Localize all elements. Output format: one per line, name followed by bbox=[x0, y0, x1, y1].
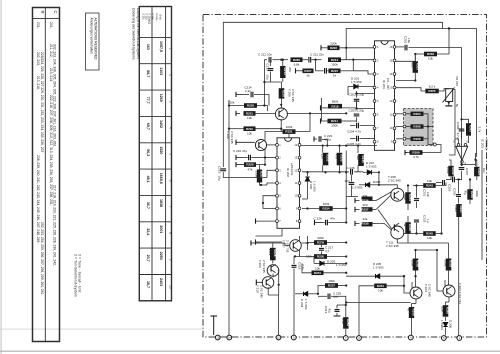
terminal 7 bbox=[343, 336, 348, 341]
svg-text:T 209: T 209 bbox=[258, 260, 262, 268]
ground stub T209 bbox=[251, 240, 260, 245]
terminal 10 bbox=[276, 335, 281, 340]
svg-text:1 S 953: 1 S 953 bbox=[352, 186, 363, 190]
svg-text:22k: 22k bbox=[321, 154, 325, 159]
svg-text:ALTERATIONS RESERVED: ALTERATIONS RESERVED bbox=[94, 18, 98, 61]
resistor R241s bbox=[474, 167, 486, 177]
svg-text:150k: 150k bbox=[331, 62, 338, 66]
resistor R206 bbox=[411, 124, 424, 128]
svg-text:22k: 22k bbox=[363, 217, 368, 221]
svg-text:R248: R248 bbox=[470, 191, 474, 199]
capacitor C219 47u bbox=[335, 310, 340, 312]
svg-text:R233: R233 bbox=[340, 154, 344, 162]
svg-text:C 211 22n: C 211 22n bbox=[310, 53, 324, 57]
IC201 pins left bbox=[373, 46, 376, 49]
svg-text:R234: R234 bbox=[322, 207, 330, 211]
svg-text:R250: R250 bbox=[416, 260, 420, 268]
svg-text:D 202: D 202 bbox=[309, 181, 313, 189]
svg-text:47k: 47k bbox=[248, 167, 253, 171]
resistor R257 100k bbox=[325, 279, 338, 288]
resistor R221 10k bbox=[244, 111, 256, 120]
svg-text:6,8k: 6,8k bbox=[294, 62, 300, 66]
junction on rail B bbox=[448, 27, 450, 29]
svg-text:3: 3 bbox=[169, 101, 173, 103]
svg-text:220k: 220k bbox=[228, 100, 235, 104]
svg-text:R208: R208 bbox=[413, 137, 421, 141]
svg-text:R216: R216 bbox=[282, 90, 286, 98]
svg-text:T 204: T 204 bbox=[424, 284, 428, 292]
svg-text:47n: 47n bbox=[330, 217, 335, 221]
resistor R245 10k bbox=[423, 231, 436, 240]
dash-dot frame border bbox=[203, 15, 487, 338]
svg-text:10k: 10k bbox=[427, 179, 432, 183]
resistor R242 2.7k bbox=[466, 123, 473, 136]
svg-text:R211: R211 bbox=[331, 119, 338, 123]
transistor T210 bbox=[262, 277, 274, 289]
svg-text:6: 6 bbox=[169, 180, 173, 182]
svg-text:2 SC 945: 2 SC 945 bbox=[428, 284, 432, 297]
svg-text:100k: 100k bbox=[444, 260, 448, 267]
wire down from R214 node bbox=[352, 60, 354, 71]
svg-text:R: R bbox=[40, 11, 45, 14]
capacitor C218 2.2u bbox=[292, 265, 297, 267]
svg-text:R242: R242 bbox=[469, 125, 473, 133]
resistor R235 bbox=[356, 154, 365, 166]
IC202 pins left bbox=[276, 144, 279, 147]
svg-text:R244: R244 bbox=[408, 194, 412, 202]
svg-text:10n: 10n bbox=[426, 192, 430, 197]
transistor T205 bbox=[275, 108, 287, 120]
svg-text:C213: C213 bbox=[266, 64, 270, 72]
svg-text:C227: C227 bbox=[477, 168, 481, 176]
diode D204 bbox=[304, 292, 308, 296]
ground stub pin7 bbox=[255, 219, 257, 224]
svg-text:TA7063: TA7063 bbox=[484, 139, 488, 150]
svg-text:1k: 1k bbox=[306, 74, 310, 78]
svg-text:2 SC 945: 2 SC 945 bbox=[291, 89, 295, 102]
svg-text:R261: R261 bbox=[377, 284, 385, 288]
transistor T203 bbox=[443, 285, 455, 297]
left feed wire to R218/R211 bbox=[321, 98, 323, 121]
svg-text:Codierung des Selektivruf-Sy: Codierung des Selektivruf-Systems bbox=[132, 8, 136, 60]
svg-text:R 201: R 201 bbox=[142, 13, 145, 20]
node C212/C213 bbox=[280, 59, 282, 61]
svg-text:10k: 10k bbox=[247, 131, 252, 135]
svg-text:10k: 10k bbox=[428, 57, 433, 61]
svg-text:IC 203: IC 203 bbox=[481, 139, 485, 148]
svg-text:10k: 10k bbox=[247, 116, 252, 120]
svg-text:R218: R218 bbox=[331, 104, 339, 108]
svg-text:100k: 100k bbox=[331, 124, 338, 128]
svg-text:R 202: R 202 bbox=[145, 13, 148, 20]
gray box pin circles bbox=[403, 112, 406, 115]
op-amp U IC202 box bbox=[277, 138, 300, 229]
svg-text:R235: R235 bbox=[361, 156, 365, 164]
svg-text:100k: 100k bbox=[454, 205, 458, 212]
diode D202 bbox=[305, 177, 309, 181]
resistor R258 2.2k bbox=[341, 317, 350, 329]
svg-text:1k: 1k bbox=[333, 74, 337, 78]
input stub C214 bbox=[236, 92, 242, 97]
svg-text:4: 4 bbox=[169, 127, 173, 129]
svg-text:4,7µ: 4,7µ bbox=[456, 133, 460, 139]
svg-text:R243: R243 bbox=[426, 184, 434, 188]
capacitor C212 bbox=[269, 57, 271, 63]
svg-text:10µ: 10µ bbox=[266, 75, 270, 80]
svg-text:R229: R229 bbox=[317, 241, 325, 245]
svg-text:2,7k: 2,7k bbox=[478, 127, 482, 133]
resistor R237 220 bbox=[361, 203, 372, 212]
svg-text:225/224, 226, 228, 227 229, 23: 225/224, 226, 228, 227 229, 230, 231, 23… bbox=[40, 52, 44, 153]
svg-text:47k: 47k bbox=[288, 67, 292, 72]
svg-text:R245: R245 bbox=[426, 232, 434, 236]
diode D206 bbox=[443, 323, 447, 327]
svg-text:10k: 10k bbox=[427, 236, 432, 240]
wire mid rail y150 bbox=[301, 145, 377, 147]
terminal 9 bbox=[291, 335, 296, 340]
terminal 8 bbox=[357, 336, 362, 341]
wire loop right bbox=[441, 188, 443, 234]
svg-text:2,2k: 2,2k bbox=[341, 318, 345, 324]
svg-text:8: 8 bbox=[169, 232, 173, 234]
svg-text:2 SA 733: 2 SA 733 bbox=[285, 240, 289, 253]
svg-text:2 SC 945: 2 SC 945 bbox=[262, 260, 266, 273]
svg-text:201,: 201, bbox=[49, 22, 53, 29]
resistor R209 4.7k bbox=[410, 150, 423, 159]
svg-text:R205: R205 bbox=[428, 89, 436, 93]
node R218/C202 bbox=[355, 92, 357, 94]
resistor R222 220k bbox=[328, 41, 340, 50]
svg-text:2 SC 945: 2 SC 945 bbox=[386, 244, 399, 248]
resistor R202 10k bbox=[424, 52, 437, 61]
svg-text:222, 216, 207, 208, 309, 310,: 222, 216, 207, 208, 309, 310, 312, 313, … bbox=[49, 95, 53, 206]
resistor R218 680k bbox=[328, 100, 342, 109]
resistor R208 bbox=[411, 137, 424, 141]
transistor T206 bbox=[255, 139, 266, 150]
svg-text:32,4: 32,4 bbox=[146, 228, 150, 235]
svg-text:1k: 1k bbox=[403, 223, 407, 227]
svg-text:R227: R227 bbox=[304, 69, 312, 73]
svg-text:1057,5: 1057,5 bbox=[159, 41, 163, 52]
resistor R214 150k bbox=[328, 57, 341, 66]
svg-text:680k: 680k bbox=[332, 100, 339, 104]
svg-text:T 205: T 205 bbox=[287, 89, 291, 97]
wire right bus pair bbox=[481, 150, 483, 260]
svg-text:R214: R214 bbox=[331, 58, 339, 62]
svg-text:C218: C218 bbox=[298, 262, 302, 270]
wire C212 row bbox=[264, 60, 267, 106]
antenna stub bottom left bbox=[211, 316, 218, 335]
svg-text:R236: R236 bbox=[361, 199, 369, 203]
capacitor before R215 bbox=[325, 68, 327, 74]
svg-text:C207: C207 bbox=[465, 168, 469, 176]
svg-text:100k: 100k bbox=[446, 167, 450, 174]
svg-text:36,7: 36,7 bbox=[146, 202, 150, 209]
svg-text:220k: 220k bbox=[330, 41, 337, 45]
svg-text:88,7: 88,7 bbox=[146, 70, 150, 77]
svg-text:680: 680 bbox=[410, 62, 414, 67]
svg-text:39k: 39k bbox=[363, 194, 368, 198]
svg-text:1402: 1402 bbox=[159, 120, 163, 128]
wire VR201 wiper bbox=[453, 90, 455, 140]
resistor R248 390k bbox=[467, 189, 479, 200]
svg-text:R220: R220 bbox=[293, 58, 301, 62]
svg-text:8,2 k: 8,2 k bbox=[429, 85, 436, 89]
capacitor C217 4.7 bbox=[319, 248, 324, 250]
terminal 4 bbox=[408, 335, 413, 340]
resistor R219 220k bbox=[255, 170, 264, 183]
resistor R251 10k bbox=[312, 266, 324, 275]
svg-text:1 S 953: 1 S 953 bbox=[351, 80, 362, 84]
svg-text:1269: 1269 bbox=[159, 94, 163, 102]
svg-text:213, 214,: 213, 214, bbox=[49, 68, 53, 82]
svg-text:2253: 2253 bbox=[159, 252, 163, 260]
resistor R211 100k bbox=[328, 119, 342, 128]
resistor R216 bbox=[279, 88, 286, 98]
resistor R252 bbox=[444, 259, 453, 271]
ground stub T210 base bbox=[256, 280, 263, 286]
svg-text:390k: 390k bbox=[475, 190, 479, 197]
svg-text:100k: 100k bbox=[411, 260, 415, 267]
resistor R260 3.3k bbox=[441, 305, 450, 317]
resistor R243 10k bbox=[423, 179, 436, 188]
svg-text:1: 1 bbox=[169, 48, 173, 50]
svg-text:48,1: 48,1 bbox=[146, 176, 150, 183]
wire left long vertical to terminal 14 bbox=[228, 100, 230, 337]
svg-text:C231: C231 bbox=[423, 189, 427, 197]
svg-text:R258: R258 bbox=[346, 319, 350, 327]
transistor T208 bbox=[391, 188, 404, 201]
svg-text:2 SC 945: 2 SC 945 bbox=[388, 179, 401, 183]
svg-text:2 SC 945: 2 SC 945 bbox=[259, 285, 263, 298]
svg-text:10k: 10k bbox=[378, 289, 383, 293]
svg-text:Änderungen vorbehalten: Änderungen vorbehalten bbox=[90, 18, 94, 55]
svg-text:IC 202: IC 202 bbox=[286, 168, 290, 177]
svg-text:7: 7 bbox=[169, 206, 173, 208]
wire y250 bbox=[397, 242, 448, 244]
svg-text:C233: C233 bbox=[423, 215, 427, 223]
svg-text:R230: R230 bbox=[317, 255, 325, 259]
svg-text:IC 201: IC 201 bbox=[382, 80, 386, 89]
svg-text:1 S 953: 1 S 953 bbox=[312, 181, 316, 192]
svg-text:R203: R203 bbox=[415, 63, 419, 71]
resistor R220 6.8k bbox=[291, 57, 303, 66]
svg-text:R246: R246 bbox=[408, 224, 412, 232]
svg-text:3 = Tone - Selcall - Unit: 3 = Tone - Selcall - Unit bbox=[77, 254, 81, 293]
svg-text:T 206: T 206 bbox=[226, 131, 230, 139]
svg-text:R 203(kΩ): R 203(kΩ) bbox=[147, 13, 150, 24]
resistor R203 680 bbox=[410, 61, 419, 73]
svg-text:100k: 100k bbox=[403, 193, 407, 200]
svg-text:R257: R257 bbox=[328, 284, 336, 288]
resistor R228 220k bbox=[268, 248, 277, 260]
wire C213 branch bbox=[270, 60, 272, 66]
svg-text:100k: 100k bbox=[286, 125, 293, 129]
svg-text:R220: R220 bbox=[247, 104, 255, 108]
svg-text:1 S953: 1 S953 bbox=[440, 320, 444, 330]
resistor R234 100k bbox=[319, 202, 333, 211]
scan fold shadow bottom bbox=[0, 351, 500, 352]
terminal 1 bbox=[457, 336, 462, 341]
resistor R213 bbox=[280, 66, 292, 78]
capacitor C223 470u bbox=[314, 136, 317, 141]
svg-text:3 = Ton-Selektivruf-System: 3 = Ton-Selektivruf-System bbox=[74, 254, 78, 297]
wire pin7 bottom bbox=[256, 229, 283, 236]
svg-text:10n: 10n bbox=[482, 168, 486, 173]
svg-text:R259: R259 bbox=[412, 309, 416, 317]
svg-text:R240: R240 bbox=[451, 167, 455, 175]
svg-text:D 204: D 204 bbox=[300, 299, 304, 307]
transistor T209 bbox=[267, 264, 279, 276]
svg-text:R226: R226 bbox=[246, 163, 254, 167]
svg-text:Freq.-: Freq.- bbox=[155, 14, 159, 22]
capacitor C204 4.7n bbox=[357, 123, 359, 129]
bottom rail y172.3 bbox=[302, 171, 363, 173]
svg-text:R231: R231 bbox=[285, 130, 293, 134]
svg-text:1103: 1103 bbox=[159, 67, 163, 75]
svg-text:T 203 2 SA 733: T 203 2 SA 733 bbox=[458, 283, 462, 304]
svg-text:R209: R209 bbox=[412, 151, 420, 155]
wire rail B bbox=[346, 29, 476, 158]
right bus down to terminal 1 bbox=[461, 143, 463, 166]
svg-text:D 203: D 203 bbox=[327, 260, 335, 264]
svg-text:77,7: 77,7 bbox=[146, 97, 150, 104]
svg-text:VR 201: VR 201 bbox=[455, 76, 459, 86]
svg-text:56,2: 56,2 bbox=[146, 149, 150, 156]
svg-text:R221: R221 bbox=[246, 112, 254, 116]
resistor R226 47k bbox=[244, 162, 256, 171]
wire pin13 to R205 bbox=[396, 80, 415, 82]
svg-text:238, 239, 240, 241, 242, 243,: 238, 239, 240, 241, 242, 243, 244, 245, … bbox=[36, 155, 40, 243]
resistor R231 100k bbox=[283, 125, 296, 134]
svg-text:47n: 47n bbox=[333, 295, 338, 299]
right joins in gray box bbox=[427, 114, 429, 139]
svg-text:18µ: 18µ bbox=[407, 38, 411, 43]
svg-text:202, 203,: 202, 203, bbox=[36, 52, 40, 66]
svg-text:C215: C215 bbox=[217, 166, 221, 174]
svg-text:R 206: R 206 bbox=[150, 13, 153, 20]
transistor T207 bbox=[290, 240, 302, 252]
resistor R240 bbox=[446, 166, 455, 177]
svg-text:1µ: 1µ bbox=[426, 219, 430, 223]
svg-text:220k: 220k bbox=[268, 249, 272, 256]
svg-text:47µ: 47µ bbox=[328, 308, 332, 313]
resistor R259 47 bbox=[407, 307, 416, 318]
svg-text:10k: 10k bbox=[315, 266, 320, 270]
svg-text:330k: 330k bbox=[317, 236, 324, 240]
wire opamp out down bbox=[449, 139, 455, 155]
svg-text:µPC1011: µPC1011 bbox=[290, 163, 294, 176]
svg-text:1520: 1520 bbox=[159, 146, 163, 154]
capacitor C225 47n bbox=[328, 294, 330, 300]
selection network gray box bbox=[404, 109, 434, 146]
IC202 left wires bbox=[267, 144, 276, 146]
capacitor C233 1u bbox=[414, 220, 419, 222]
svg-text:10: 10 bbox=[169, 285, 173, 289]
svg-text:47: 47 bbox=[407, 308, 411, 312]
svg-text:47k: 47k bbox=[335, 154, 339, 159]
resistor R229 330k bbox=[314, 236, 327, 245]
svg-text:(Hz): (Hz) bbox=[159, 15, 163, 20]
svg-text:252, 253, 254, 255, 256, 257,: 252, 253, 254, 255, 256, 257, 258, 259, … bbox=[40, 222, 44, 295]
svg-text:211, 212,: 211, 212, bbox=[49, 44, 53, 58]
svg-text:2403: 2403 bbox=[159, 278, 163, 286]
svg-text:100k: 100k bbox=[323, 202, 330, 206]
svg-text:1 S 953: 1 S 953 bbox=[373, 266, 384, 270]
resistor R230 330k bbox=[306, 254, 327, 259]
svg-text:220k: 220k bbox=[255, 171, 259, 178]
svg-text:5k: 5k bbox=[455, 104, 459, 108]
svg-text:R222: R222 bbox=[330, 46, 338, 50]
capacitor C231 10n bbox=[414, 199, 419, 201]
svg-text:1 S 953: 1 S 953 bbox=[304, 299, 308, 310]
svg-text:R210: R210 bbox=[246, 127, 254, 131]
svg-text:C: C bbox=[53, 11, 58, 14]
op-amp IC203 triangle bbox=[456, 146, 468, 160]
svg-text:R260: R260 bbox=[446, 307, 450, 315]
svg-text:R252: R252 bbox=[449, 260, 453, 268]
svg-text:2 SC 945: 2 SC 945 bbox=[230, 131, 234, 144]
resistor R236 39k bbox=[361, 194, 372, 203]
capacitor C232 top bbox=[453, 177, 455, 183]
svg-text:2: 2 bbox=[169, 74, 173, 76]
svg-text:R238: R238 bbox=[361, 222, 369, 226]
svg-text:47µ: 47µ bbox=[464, 190, 468, 195]
svg-text:32k: 32k bbox=[356, 155, 360, 160]
capacitor C226 bbox=[459, 168, 465, 170]
svg-text:C229: C229 bbox=[448, 184, 452, 192]
transistor T204 bbox=[410, 287, 422, 299]
svg-text:R228: R228 bbox=[273, 249, 277, 257]
terminal 5 bbox=[441, 336, 446, 341]
svg-text:1 S 953: 1 S 953 bbox=[366, 165, 377, 169]
svg-text:217, 218, 219, 220, 221, 225,: 217, 218, 219, 220, 221, 225, 226, 228, … bbox=[53, 185, 57, 266]
capacitor C236 4.7u bbox=[459, 129, 465, 131]
svg-text:4,7: 4,7 bbox=[325, 249, 330, 253]
resistor R215 1k bbox=[329, 69, 341, 78]
terminal 14 bbox=[227, 335, 232, 340]
wire pin15 to R202 bbox=[396, 54, 415, 61]
note box Aenderungen vorbehalten bbox=[86, 13, 100, 70]
resistor R232 bbox=[321, 153, 330, 166]
wire y302 bbox=[346, 302, 410, 304]
svg-text:C219: C219 bbox=[324, 306, 328, 314]
svg-text:2001: 2001 bbox=[159, 225, 163, 233]
svg-text:R241: R241 bbox=[459, 206, 463, 214]
svg-text:C201: C201 bbox=[404, 36, 408, 44]
resistor R205 8.2k bbox=[425, 85, 439, 94]
op-amp U IC201 box bbox=[375, 41, 395, 151]
svg-text:C230: C230 bbox=[453, 188, 457, 196]
svg-text:R237: R237 bbox=[361, 208, 369, 212]
input stub row2 bbox=[236, 111, 240, 116]
svg-text:3,3k: 3,3k bbox=[441, 306, 445, 312]
capacitor C215 10u bbox=[221, 169, 227, 171]
svg-text:65,7: 65,7 bbox=[146, 123, 150, 130]
svg-text:R232: R232 bbox=[326, 154, 330, 162]
capacitor C211 bbox=[309, 57, 311, 63]
svg-text:C 212 10n: C 212 10n bbox=[258, 53, 272, 57]
scan edge artifact left bbox=[1, 0, 2, 354]
ground VR201 bbox=[445, 102, 452, 106]
svg-text:D 206: D 206 bbox=[449, 320, 453, 328]
svg-text:R213: R213 bbox=[283, 68, 287, 76]
resistor R227 1k bbox=[303, 69, 314, 78]
svg-text:T 210: T 210 bbox=[256, 285, 260, 293]
resistor R241 100k bbox=[454, 204, 463, 217]
svg-text:R204: R204 bbox=[413, 112, 421, 116]
resistor R223 220k bbox=[228, 100, 257, 107]
